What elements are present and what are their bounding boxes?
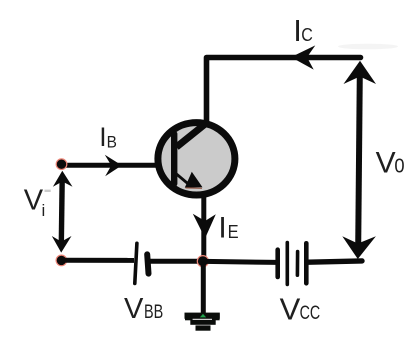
- svg-text:i: i: [42, 201, 46, 220]
- wire collector-to-top rail: [207, 58, 361, 125]
- wire center node to battery VCC: [205, 261, 276, 262]
- ground symbol bars: [185, 313, 220, 331]
- svg-text:V: V: [376, 146, 396, 179]
- transistor Q1 collector stroke: [177, 122, 208, 147]
- arrowhead IC current arrow (pointing left): [291, 45, 315, 69]
- wire battery VBB to center node: [150, 259, 201, 264]
- svg-text:0: 0: [394, 156, 404, 178]
- svg-text:E: E: [228, 222, 239, 242]
- node input bottom (red-ringed): [56, 255, 67, 266]
- transistor Q1 emitter arrowhead: [185, 172, 203, 188]
- wire emitter down: [201, 194, 206, 262]
- svg-text:V: V: [124, 293, 144, 325]
- label Vi faint minus: [45, 190, 51, 192]
- battery VBB short plate: [147, 254, 148, 273]
- wire base (left input): [61, 163, 177, 168]
- measurement arrow V0 (double-headed vertical right): [342, 61, 376, 259]
- battery VCC plate 4 long: [304, 243, 309, 283]
- label IE: [218, 212, 238, 245]
- label IC: [293, 13, 313, 48]
- wire bottom left: [61, 258, 134, 263]
- wire battery VCC to right rail: [309, 261, 363, 262]
- wire ground stem: [201, 261, 206, 313]
- svg-text:I: I: [218, 212, 226, 245]
- transistor Q1 emitter stroke: [174, 172, 190, 186]
- label IB: [99, 122, 117, 152]
- node input top (red-ringed): [56, 159, 67, 170]
- battery VBB long plate: [135, 243, 137, 283]
- arrowhead IB current arrow (pointing right): [105, 155, 122, 177]
- svg-text:B: B: [107, 134, 117, 152]
- transistor Q1 base bar: [171, 134, 177, 184]
- svg-text:I: I: [99, 122, 106, 152]
- arrowhead IE current arrow (pointing down): [193, 214, 216, 238]
- label VBB: [124, 293, 163, 325]
- label Vi: [24, 184, 45, 220]
- label VCC: [280, 292, 321, 327]
- transistor Q1 body circle: [158, 123, 235, 195]
- ground green artifact: [200, 314, 206, 318]
- svg-text:BB: BB: [144, 302, 163, 323]
- measurement arrow Vi (double-headed vertical): [52, 171, 73, 253]
- emitter arrow red fringe: [186, 187, 203, 189]
- battery VCC plate 1 short: [275, 250, 280, 277]
- label V0: [376, 146, 405, 179]
- svg-text:C: C: [301, 24, 313, 45]
- svg-text:V: V: [280, 292, 301, 327]
- node center bottom (red-ringed): [197, 256, 208, 267]
- svg-text:CC: CC: [300, 302, 321, 324]
- battery VCC plate 2 long: [285, 243, 289, 285]
- smudge artifact top right: [338, 44, 398, 50]
- battery VCC plate 3 short: [296, 252, 300, 276]
